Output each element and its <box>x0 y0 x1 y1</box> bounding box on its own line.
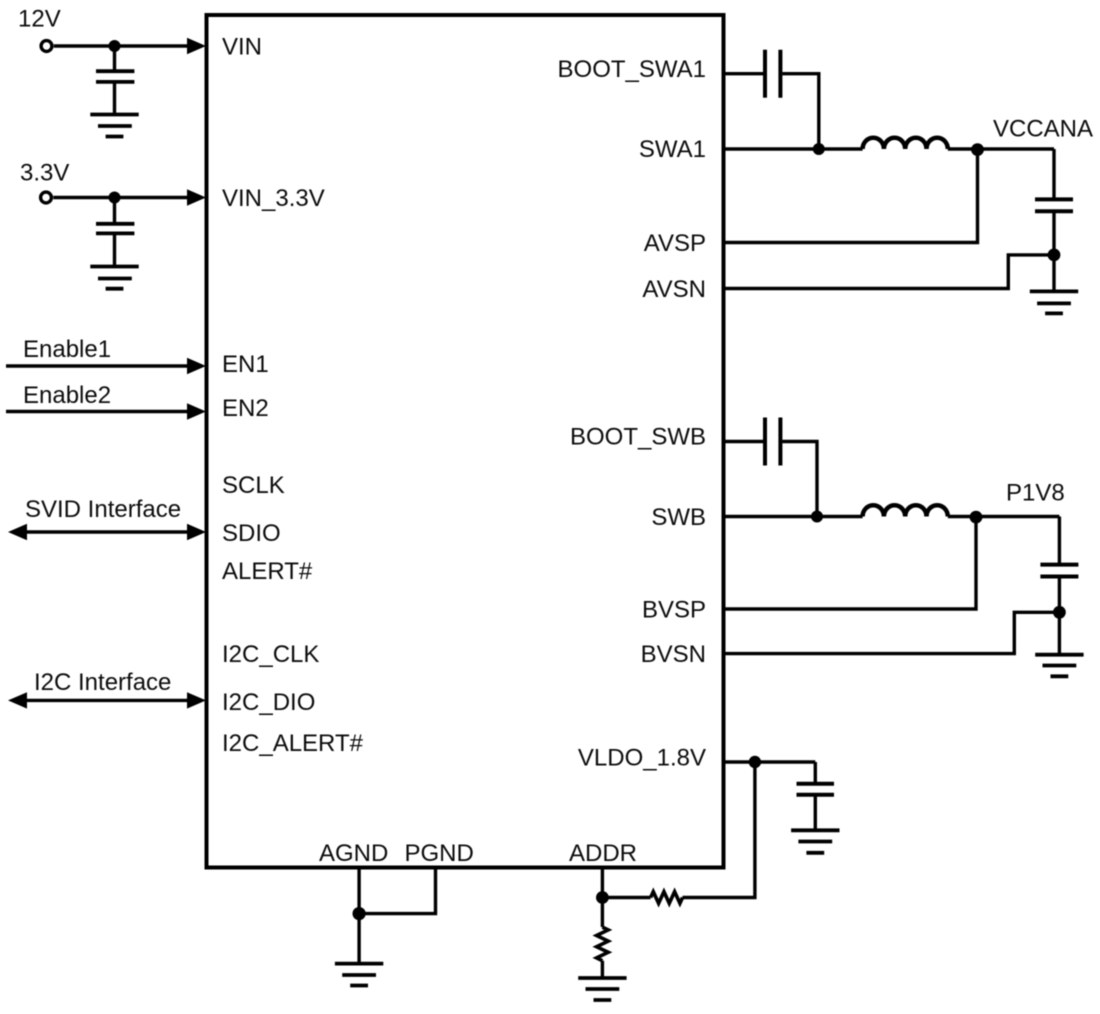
svg-text:EN1: EN1 <box>222 351 269 378</box>
svg-text:12V: 12V <box>18 6 61 33</box>
svg-text:SWA1: SWA1 <box>639 136 706 163</box>
svg-text:SCLK: SCLK <box>222 472 285 499</box>
svg-text:AVSP: AVSP <box>644 230 706 257</box>
svg-text:SVID Interface: SVID Interface <box>25 496 181 523</box>
svg-text:I2C_DIO: I2C_DIO <box>222 689 315 716</box>
svg-text:AVSN: AVSN <box>642 276 706 303</box>
svg-text:SDIO: SDIO <box>222 520 281 547</box>
svg-text:I2C Interface: I2C Interface <box>34 669 171 696</box>
svg-text:ADDR: ADDR <box>569 840 637 867</box>
svg-text:VCCANA: VCCANA <box>993 115 1093 142</box>
svg-text:I2C_ALERT#: I2C_ALERT# <box>222 730 364 757</box>
svg-text:Enable2: Enable2 <box>23 382 111 409</box>
svg-text:AGND: AGND <box>319 840 388 867</box>
svg-text:I2C_CLK: I2C_CLK <box>222 641 319 668</box>
svg-text:P1V8: P1V8 <box>1006 480 1065 507</box>
svg-text:BVSN: BVSN <box>641 641 706 668</box>
svg-text:SWB: SWB <box>651 504 706 531</box>
svg-text:PGND: PGND <box>405 840 474 867</box>
svg-text:3.3V: 3.3V <box>20 160 69 187</box>
svg-text:BOOT_SWA1: BOOT_SWA1 <box>558 56 706 83</box>
svg-text:BVSP: BVSP <box>642 597 706 624</box>
svg-text:VLDO_1.8V: VLDO_1.8V <box>578 745 706 772</box>
svg-text:VIN: VIN <box>222 34 262 61</box>
svg-text:VIN_3.3V: VIN_3.3V <box>222 185 325 212</box>
svg-text:EN2: EN2 <box>222 395 269 422</box>
svg-text:ALERT#: ALERT# <box>222 558 313 585</box>
svg-text:Enable1: Enable1 <box>23 336 111 363</box>
svg-text:BOOT_SWB: BOOT_SWB <box>570 424 706 451</box>
